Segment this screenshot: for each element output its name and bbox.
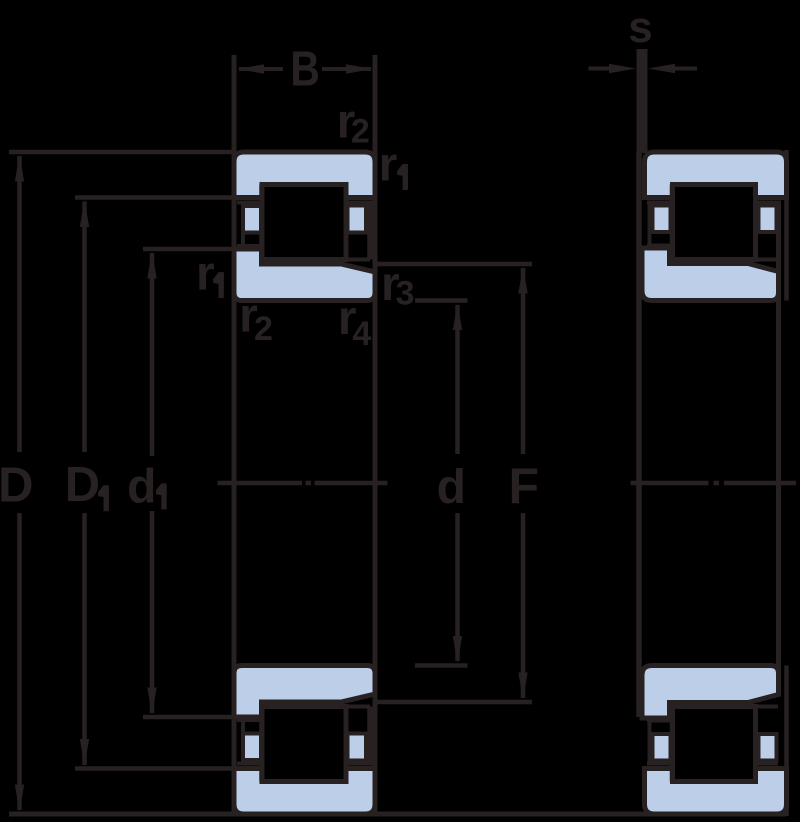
- svg-text:4: 4: [352, 315, 371, 353]
- svg-text:r: r: [196, 247, 215, 300]
- svg-text:r: r: [379, 139, 398, 192]
- svg-text:F: F: [509, 458, 540, 514]
- svg-text:2: 2: [254, 310, 273, 348]
- svg-text:3: 3: [396, 275, 415, 313]
- svg-text:d: d: [437, 461, 466, 514]
- svg-text:D: D: [65, 458, 100, 512]
- svg-text:2: 2: [351, 113, 370, 151]
- svg-text:d: d: [127, 460, 156, 513]
- svg-text:D: D: [0, 459, 33, 513]
- svg-text:s: s: [628, 3, 652, 52]
- svg-text:B: B: [290, 43, 320, 97]
